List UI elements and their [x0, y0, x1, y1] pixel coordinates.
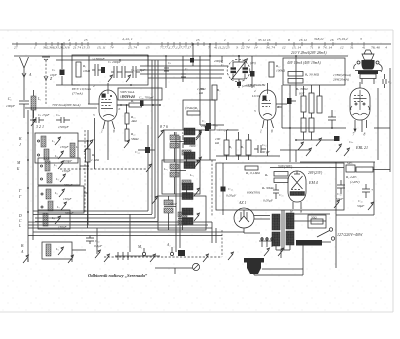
svg-text:22: 22 [241, 46, 245, 50]
svg-text:21 74 15 15: 21 74 15 15 [73, 46, 90, 50]
svg-text:27: 27 [14, 46, 18, 50]
svg-text:8: 8 [364, 133, 366, 137]
svg-text:5: 5 [254, 109, 256, 113]
svg-text:AZ 1: AZ 1 [238, 201, 246, 205]
svg-text:Cₐₐ: Cₐₐ [56, 113, 60, 117]
svg-text:L₃: L₃ [54, 154, 58, 158]
svg-text:(77mA): (77mA) [72, 92, 83, 96]
svg-text:50μF: 50μF [336, 197, 344, 201]
svg-text:C₃₄: C₃₄ [135, 150, 141, 154]
svg-text:4: 4 [68, 38, 70, 42]
svg-text:L₉: L₉ [55, 247, 59, 251]
svg-text:(03): (03) [250, 61, 257, 65]
svg-text:6: 6 [119, 107, 121, 111]
svg-text:58kΩ: 58kΩ [131, 137, 139, 141]
svg-text:C₁₉: C₁₉ [279, 193, 284, 197]
svg-text:12: 12 [282, 46, 286, 50]
svg-text:+: + [371, 188, 373, 192]
svg-text:1TB 90kΩkHz: 1TB 90kΩkHz [246, 83, 266, 87]
svg-text:Rₐ 30kΩₐ: Rₐ 30kΩₐ [261, 186, 274, 190]
svg-text:C₄₀: C₄₀ [358, 199, 363, 203]
svg-text:210 V 28mA(28V 28mA): 210 V 28mA(28V 28mA) [291, 51, 327, 55]
svg-text:150pF: 150pF [60, 145, 70, 149]
svg-text:1: 1 [34, 46, 36, 50]
svg-text:(140V): (140V) [350, 180, 360, 184]
svg-text:M₁: M₁ [137, 245, 143, 249]
svg-text:~1500pF: ~1500pF [92, 57, 105, 61]
svg-text:5: 5 [93, 113, 95, 117]
svg-text:10kΩ: 10kΩ [83, 69, 91, 73]
svg-text:100kΩ: 100kΩ [276, 69, 286, 73]
svg-text:LO10₇: LO10₇ [251, 94, 262, 98]
svg-text:16 12: 16 12 [299, 38, 307, 42]
svg-text:50μF: 50μF [357, 204, 365, 208]
svg-text:1: 1 [101, 130, 103, 134]
svg-text:500V 6mA: 500V 6mA [120, 90, 135, 94]
svg-text:3 2 1: 3 2 1 [36, 124, 44, 129]
svg-text:L: L [18, 224, 21, 228]
svg-text:R₆: R₆ [228, 145, 232, 149]
svg-text:10pF: 10pF [50, 73, 58, 77]
svg-text:70V 6mA(08V 6mA): 70V 6mA(08V 6mA) [52, 103, 81, 107]
svg-text:28V(23V): 28V(23V) [308, 171, 323, 175]
svg-text:C₅₀: C₅₀ [337, 192, 342, 196]
svg-text:EBL 21: EBL 21 [355, 145, 368, 150]
svg-text:L₆: L₆ [54, 191, 58, 195]
svg-text:3: 3 [236, 46, 238, 50]
svg-text:A₁: A₁ [166, 243, 171, 247]
svg-text:R₁: R₁ [82, 64, 86, 68]
svg-text:8: 8 [113, 130, 115, 134]
svg-text:50V(38V): 50V(38V) [278, 165, 293, 169]
svg-text:8: 8 [318, 46, 320, 50]
svg-text:3: 3 [360, 37, 362, 41]
svg-text:71: 71 [310, 46, 314, 50]
svg-text:2: 2 [93, 84, 95, 88]
svg-text:2: 2 [254, 89, 256, 93]
svg-text:8: 8 [288, 38, 290, 42]
svg-text:1: 1 [248, 38, 250, 42]
svg-text:Rₐ: Rₐ [91, 153, 95, 157]
svg-text:15: 15 [84, 38, 88, 42]
svg-text:L₁: L₁ [37, 97, 42, 101]
svg-text:R₂₂: R₂₂ [130, 132, 136, 136]
svg-text:kΩ: kΩ [215, 141, 220, 145]
svg-text:150pF: 150pF [62, 169, 72, 173]
svg-text:Odbiornik radiowy „Serenada”: Odbiornik radiowy „Serenada” [88, 273, 148, 278]
svg-text:Lₐ: Lₐ [75, 145, 79, 149]
svg-text:Cₐ: Cₐ [168, 61, 171, 65]
svg-text:EM 4: EM 4 [308, 180, 318, 185]
svg-text:R₂ 240~: R₂ 240~ [345, 175, 357, 179]
svg-text:7: 7 [353, 133, 355, 137]
svg-text:17BV(20mA): 17BV(20mA) [333, 73, 352, 77]
svg-text:4: 4 [385, 46, 387, 50]
svg-text:41: 41 [362, 46, 366, 50]
svg-text:Lₐ: Lₐ [181, 131, 185, 135]
svg-text:Cₐ: Cₐ [185, 67, 188, 71]
svg-text:Rₐ 30 MΩ: Rₐ 30 MΩ [304, 73, 319, 77]
svg-text:127/220V~40W: 127/220V~40W [337, 232, 363, 237]
svg-text:J: J [19, 143, 21, 147]
svg-text:600(500): 600(500) [247, 191, 261, 195]
svg-text:D: D [18, 214, 22, 218]
svg-text:100pF: 100pF [6, 104, 16, 108]
svg-text:31: 31 [350, 46, 354, 50]
svg-text:35 12 16: 35 12 16 [258, 38, 271, 42]
svg-text:14: 14 [254, 46, 258, 50]
svg-text:1: 1 [260, 130, 262, 134]
svg-text:150pF: 150pF [58, 225, 68, 229]
svg-text:C₃₀: C₃₀ [95, 239, 100, 243]
svg-text:8: 8 [271, 130, 273, 134]
svg-text:1 MΩ: 1 MΩ [91, 158, 99, 162]
svg-text:8 7 6: 8 7 6 [160, 124, 168, 129]
svg-text:12: 12 [340, 46, 344, 50]
svg-text:15: 15 [146, 46, 150, 50]
svg-text:L₅: L₅ [55, 177, 59, 181]
svg-text:Cₐ: Cₐ [52, 68, 55, 72]
svg-text:(100V mA): (100V mA) [120, 95, 136, 99]
svg-text:(35kΩ)R₂: (35kΩ)R₂ [185, 106, 199, 110]
svg-text:L₄: L₄ [53, 163, 57, 167]
svg-text:Cₐ: Cₐ [221, 63, 224, 67]
svg-text:500 pF: 500 pF [260, 150, 271, 154]
svg-text:1500pF: 1500pF [58, 125, 70, 129]
svg-text:25: 25 [226, 46, 230, 50]
svg-text:1: 1 [224, 38, 226, 42]
svg-text:74: 74 [246, 46, 250, 50]
svg-text:Lₐ₃: Lₐ₃ [181, 208, 186, 212]
svg-text:Rₐ 700Ω: Rₐ 700Ω [295, 87, 308, 91]
svg-text:15: 15 [196, 38, 200, 42]
svg-text:16: 16 [330, 38, 334, 42]
svg-text:Cₐₐ: Cₐₐ [349, 140, 353, 144]
svg-text:150pF: 150pF [63, 197, 73, 201]
svg-text:40V 19mA (40V 19mA): 40V 19mA (40V 19mA) [287, 61, 321, 65]
svg-text:50Ω: 50Ω [311, 216, 317, 220]
svg-text:4kΩ: 4kΩ [131, 119, 137, 123]
svg-text:C₁₈: C₁₈ [228, 187, 234, 191]
svg-text:500pF: 500pF [64, 183, 74, 187]
svg-text:74: 74 [110, 46, 114, 50]
svg-text:Cₐ 15pF: Cₐ 15pF [38, 113, 50, 117]
svg-text:Lₐ₁: Lₐ₁ [163, 167, 168, 171]
svg-text:R₁₁: R₁₁ [275, 64, 281, 68]
svg-text:Rₐ: Rₐ [264, 173, 268, 177]
svg-text:28V(20mA): 28V(20mA) [333, 78, 350, 82]
svg-text:SPC: SPC [347, 161, 354, 165]
svg-text:7kHz: 7kHz [189, 144, 196, 148]
svg-text:K: K [18, 137, 22, 141]
